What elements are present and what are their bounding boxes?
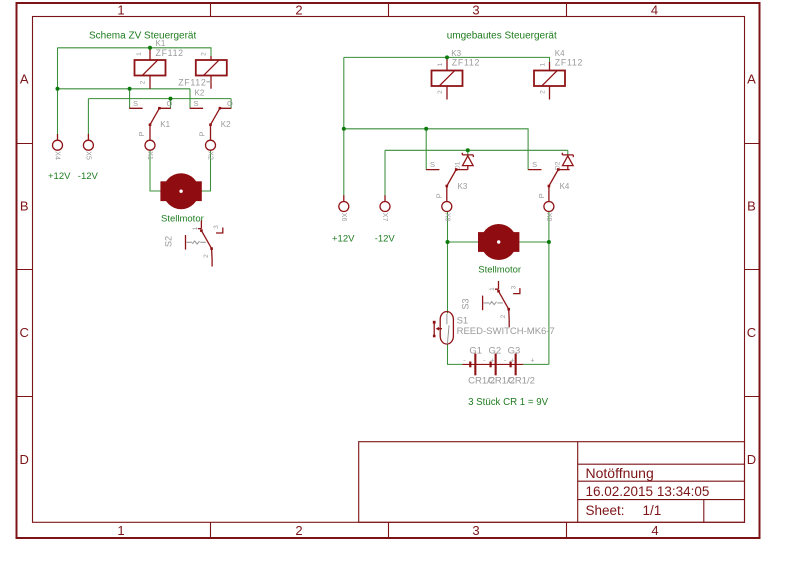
svg-text:2: 2 <box>201 52 208 56</box>
svg-text:C: C <box>747 325 756 340</box>
svg-text:1: 1 <box>437 63 444 67</box>
svg-text:REED-SWITCH-MK6-7: REED-SWITCH-MK6-7 <box>457 326 555 337</box>
svg-text:D: D <box>747 452 756 467</box>
svg-text:A: A <box>747 72 756 87</box>
svg-text:+: + <box>530 357 534 364</box>
svg-text:2: 2 <box>295 3 302 18</box>
svg-text:S: S <box>430 160 435 169</box>
svg-text:1: 1 <box>117 3 124 18</box>
svg-text:X4: X4 <box>54 151 61 160</box>
svg-text:X8: X8 <box>444 213 451 222</box>
svg-text:16.02.2015 13:34:05: 16.02.2015 13:34:05 <box>586 484 710 499</box>
svg-text:K1: K1 <box>156 39 166 48</box>
svg-text:+12V: +12V <box>48 171 71 182</box>
svg-text:2: 2 <box>540 90 547 94</box>
svg-text:2: 2 <box>203 254 210 258</box>
svg-text:Stellmotor: Stellmotor <box>478 265 521 276</box>
svg-text:B: B <box>747 199 756 214</box>
svg-text:S: S <box>133 99 138 108</box>
svg-text:Notöffnung: Notöffnung <box>586 465 654 481</box>
svg-text:3: 3 <box>213 225 220 229</box>
svg-text:S3: S3 <box>461 298 471 309</box>
svg-text:2: 2 <box>140 80 147 84</box>
svg-text:K1: K1 <box>160 120 170 129</box>
svg-text:K2: K2 <box>195 88 205 97</box>
svg-text:B: B <box>20 199 29 214</box>
svg-text:ZF112: ZF112 <box>178 77 206 87</box>
svg-text:1/1: 1/1 <box>643 503 662 518</box>
svg-text:G1: G1 <box>469 345 482 356</box>
svg-text:4: 4 <box>651 3 658 18</box>
svg-text:3 Stück CR 1 = 9V: 3 Stück CR 1 = 9V <box>468 397 548 408</box>
svg-text:P: P <box>435 193 444 198</box>
svg-text:X6: X6 <box>340 213 347 222</box>
svg-text:X5: X5 <box>85 151 92 160</box>
svg-text:2: 2 <box>437 90 444 94</box>
svg-text:G3: G3 <box>508 345 521 356</box>
svg-text:Stellmotor: Stellmotor <box>161 213 204 224</box>
svg-text:1: 1 <box>192 226 199 230</box>
svg-text:+: + <box>510 357 514 364</box>
svg-text:-: - <box>483 357 486 364</box>
svg-text:1: 1 <box>489 287 496 291</box>
svg-text:O: O <box>167 99 173 108</box>
svg-text:P: P <box>137 131 146 136</box>
svg-text:+: + <box>490 357 494 364</box>
svg-text:S1: S1 <box>457 316 469 327</box>
svg-text:P: P <box>537 193 546 198</box>
svg-text:ZF112: ZF112 <box>555 58 583 68</box>
svg-text:1: 1 <box>540 63 547 67</box>
svg-text:X7: X7 <box>381 213 388 222</box>
svg-text:CR1/2: CR1/2 <box>508 376 535 387</box>
svg-text:G2: G2 <box>489 345 502 356</box>
svg-text:2: 2 <box>500 314 507 318</box>
svg-text:1: 1 <box>117 523 124 538</box>
svg-text:-12V: -12V <box>78 171 99 182</box>
svg-text:D: D <box>20 452 29 467</box>
svg-text:A: A <box>20 72 29 87</box>
svg-text:K3: K3 <box>458 182 468 191</box>
svg-text:3: 3 <box>472 3 479 18</box>
svg-text:K4: K4 <box>560 182 570 191</box>
svg-text:3: 3 <box>510 285 517 289</box>
svg-text:S: S <box>532 160 537 169</box>
svg-text:X2: X2 <box>207 151 214 160</box>
svg-text:-12V: -12V <box>375 233 396 244</box>
svg-text:S2: S2 <box>164 236 174 247</box>
svg-text:C: C <box>20 325 29 340</box>
svg-text:+12V: +12V <box>332 233 355 244</box>
svg-text:-: - <box>504 357 507 364</box>
svg-text:S: S <box>194 99 199 108</box>
svg-text:umgebautes Steuergerät: umgebautes Steuergerät <box>447 31 557 42</box>
svg-text:X9: X9 <box>545 213 552 222</box>
svg-text:K2: K2 <box>221 120 231 129</box>
svg-text:4: 4 <box>651 523 658 538</box>
svg-text:P: P <box>198 131 207 136</box>
svg-text:ZF112: ZF112 <box>452 58 480 68</box>
svg-text:Sheet:: Sheet: <box>586 503 625 518</box>
svg-text:2: 2 <box>295 523 302 538</box>
svg-text:1: 1 <box>136 52 143 56</box>
svg-text:-: - <box>463 357 466 364</box>
svg-text:X1: X1 <box>146 151 153 160</box>
svg-text:ZF112: ZF112 <box>156 48 184 58</box>
svg-text:Schema ZV Steuergerät: Schema ZV Steuergerät <box>89 31 196 42</box>
svg-text:O: O <box>227 99 233 108</box>
svg-text:3: 3 <box>472 523 479 538</box>
